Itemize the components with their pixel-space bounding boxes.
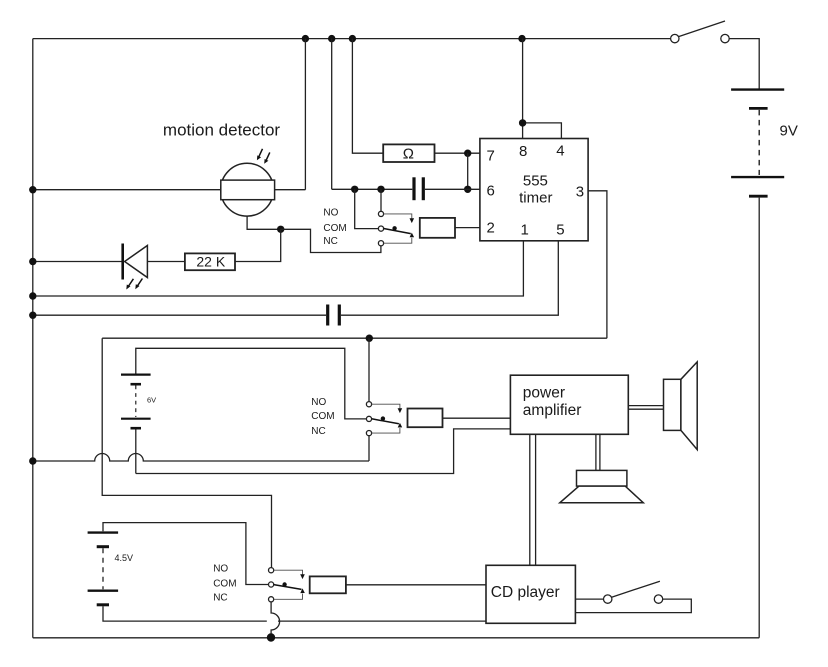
wire: pin 6 line left of capacitor C1 [332, 188, 413, 190]
battery B2 6V [121, 375, 156, 429]
wire: right rail [758, 198, 760, 638]
wire: LED to resistor R2 [147, 261, 185, 263]
node: detector output junction [277, 226, 284, 233]
node: pin 7 junction [464, 150, 471, 157]
svg-text:COM: COM [323, 223, 346, 234]
node: junction to relay K1 COM [351, 186, 358, 193]
relay K2 switch [366, 402, 402, 436]
node: top rail junction dots [302, 35, 309, 42]
node: relay K2 NO junction [366, 335, 373, 342]
node: bottom rail junction [267, 633, 275, 641]
wire: capacitor C1 to pin 6 [425, 188, 480, 190]
wire: relay K2 coil to amplifier [443, 417, 511, 419]
svg-text:NC: NC [213, 593, 227, 604]
wire: top rail down to motion detector [304, 39, 306, 190]
wire: amplifier to speaker SP2 (double line) [596, 434, 600, 470]
wire: amplifier to CD player (double line) [530, 434, 536, 565]
wire: left rail [32, 39, 34, 638]
wire: pin 5 line left of capacitor C2 [33, 314, 326, 316]
svg-text:NO: NO [311, 397, 326, 408]
wire: motion detector output down to node [247, 216, 281, 229]
wire: switch to battery [729, 39, 759, 89]
555 timer U1 [480, 139, 588, 241]
capacitor C2 [328, 305, 340, 326]
svg-text:6: 6 [487, 183, 495, 200]
svg-text:4.5V: 4.5V [115, 553, 134, 563]
wire: relay K3 coil to CD player [346, 584, 486, 586]
wire: battery B3 bottom to CD player (with gap at hop) [103, 606, 267, 621]
label: relay K3 terminals [213, 564, 236, 604]
battery B3 4.5V [88, 533, 133, 605]
wire: node to relay K1 NC terminal [281, 229, 381, 252]
wire: battery B2 bottom down to amp feed [135, 429, 137, 473]
svg-text:1: 1 [521, 222, 529, 239]
relay K1 coil [420, 218, 455, 238]
relay K3 coil [310, 576, 346, 593]
wire: left rail to motion detector [33, 189, 221, 191]
svg-text:6V: 6V [147, 396, 156, 405]
svg-text:NC: NC [323, 236, 337, 247]
relay K2 coil [408, 409, 443, 428]
relay K3 switch [269, 568, 305, 602]
wire: output bus corner down to relay K3 NO [102, 338, 271, 567]
wire: top rail down to resistor R1 [352, 39, 383, 154]
node: junction to relay K1 NO [377, 186, 384, 193]
switch S2 (CD player, open) [575, 581, 691, 612]
wire: battery B2 bottom feed to amplifier lower input [136, 429, 511, 474]
wire: top rail down to pin6 line [331, 39, 333, 190]
svg-text:Ω: Ω [403, 146, 414, 163]
relay K1: wires from pin6 line [355, 189, 379, 228]
wire: bottom rail [33, 637, 759, 639]
svg-text:COM: COM [213, 578, 236, 589]
wire: amplifier to speaker SP1 (double line) [628, 406, 663, 410]
wire: pin 1 line [33, 241, 524, 296]
wire: relay K2 COM to battery B2 top [136, 348, 367, 419]
wire: 555 output bus to amplifier relay [102, 337, 607, 339]
wire: resistor R2 to detector node [235, 229, 281, 261]
svg-text:22 K: 22 K [196, 254, 225, 270]
svg-text:2: 2 [487, 219, 495, 236]
label: relay K1 terminals [323, 208, 346, 247]
svg-text:power: power [523, 384, 565, 401]
node: pin8/pin4 junction [519, 119, 526, 126]
LED D1 [123, 244, 148, 290]
speaker SP1 [664, 362, 698, 450]
svg-text:amplifier: amplifier [523, 402, 582, 419]
svg-text:9V: 9V [780, 122, 798, 139]
wire: ground line A with hops [33, 454, 369, 461]
svg-text:NC: NC [311, 426, 325, 437]
svg-text:NO: NO [213, 564, 228, 575]
svg-text:NO: NO [323, 208, 338, 219]
capacitor C1 [414, 177, 423, 200]
wire: motion detector to top-rail drop [275, 189, 306, 191]
wire: relay K2 NC down to ground line [368, 436, 370, 461]
svg-text:8: 8 [519, 143, 527, 160]
wire: relay K1 coil to pin 2 [455, 227, 480, 229]
svg-text:4: 4 [556, 143, 564, 160]
speaker SP2 [560, 470, 644, 502]
label: relay K2 terminals [311, 397, 334, 437]
wire: pin 3 output down [588, 191, 607, 338]
svg-text:7: 7 [487, 147, 495, 164]
svg-text:COM: COM [311, 411, 334, 422]
svg-text:5: 5 [556, 222, 564, 239]
wire: capacitor C2 to pin 5 [341, 241, 558, 315]
CD player [486, 565, 575, 623]
wire: relay K2 NO up to output bus [368, 338, 370, 401]
svg-text:3: 3 [576, 184, 584, 201]
resistor R2 22 K [185, 253, 235, 270]
svg-text:CD player: CD player [491, 584, 560, 601]
wire: battery B3 top to relay K3 COM [103, 523, 269, 585]
switch S1 (top right, open) [671, 21, 730, 43]
wire: relay K3 NC down to bottom rail with hop [271, 602, 280, 638]
node: pin 6 junction [464, 186, 471, 193]
resistor R1 (ohm box) [383, 144, 434, 162]
wire: top rail down to pins 8 and 4 [522, 39, 524, 139]
battery B1 9V [731, 90, 798, 197]
power amplifier A1 [510, 375, 628, 434]
wire: top supply rail [33, 38, 671, 40]
relay K1 switch [378, 211, 414, 246]
svg-text:timer: timer [519, 189, 552, 206]
svg-text:motion detector: motion detector [163, 121, 281, 140]
wire: resistor R1 to pin 7 [435, 152, 480, 154]
wire: left rail to LED [33, 261, 122, 263]
svg-text:555: 555 [523, 173, 548, 190]
wire: pin7 to pin6 vertical tie [467, 153, 469, 189]
motion detector sensor [221, 149, 275, 216]
